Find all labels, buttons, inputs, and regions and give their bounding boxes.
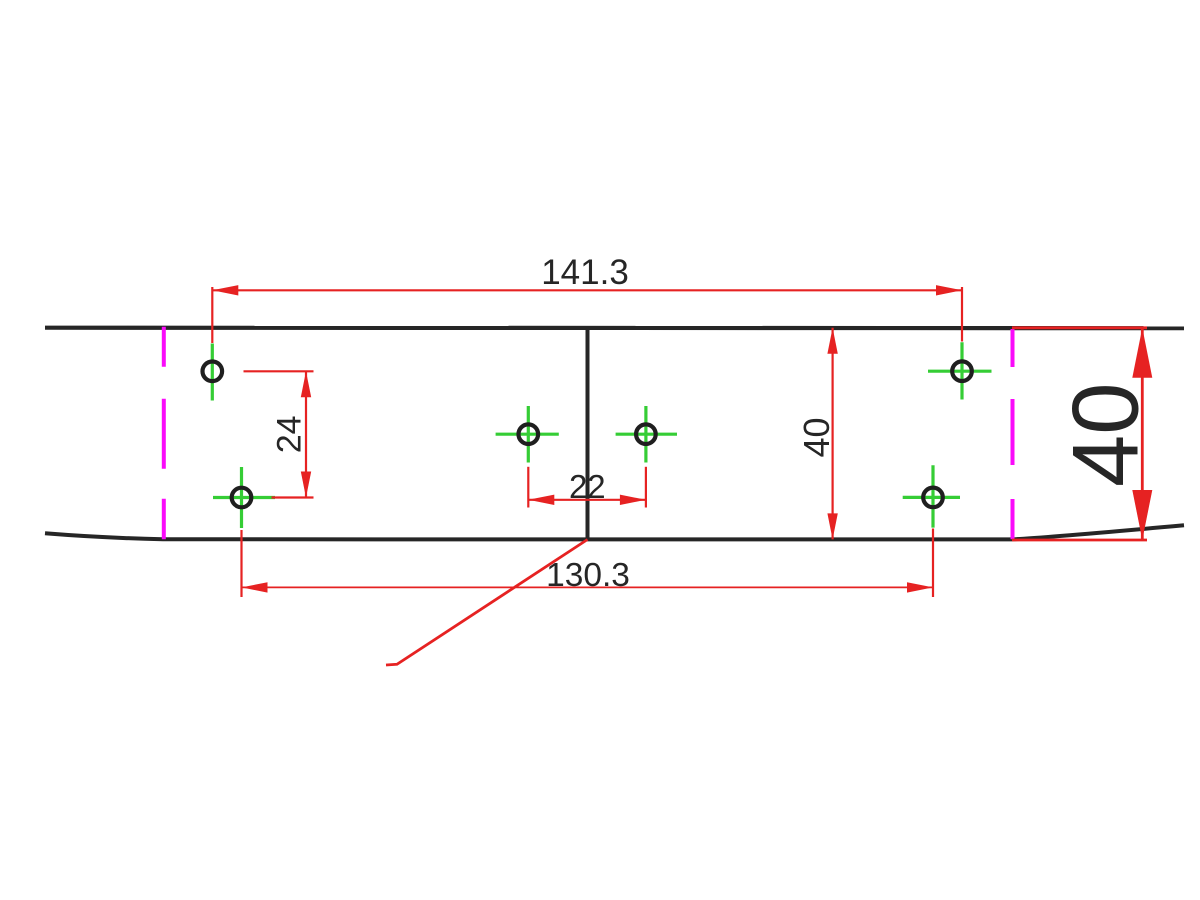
dimension 22 arrow right bbox=[620, 495, 646, 505]
dimension 24 extension stub bottom bbox=[272, 496, 314, 498]
dimension 130.3 extension line right bbox=[932, 529, 934, 598]
dimension 141.3 arrow right bbox=[936, 285, 962, 295]
leader line bbox=[386, 540, 588, 666]
hole H1 bbox=[203, 362, 223, 382]
hole H6 bbox=[923, 488, 943, 508]
hole H5 bbox=[952, 361, 972, 381]
dimension 22 extension line left bbox=[527, 467, 529, 508]
svg-text:40: 40 bbox=[1053, 382, 1158, 487]
dimension 40 line (middle) bbox=[831, 328, 833, 540]
hole H5 center mark (green) bbox=[928, 342, 992, 399]
svg-text:141.3: 141.3 bbox=[541, 253, 629, 292]
part bottom edge bbox=[45, 525, 1184, 539]
dimension 40 (right, large) extension bottom bbox=[1012, 539, 1147, 542]
dimension 24 arrow bottom bbox=[301, 472, 311, 498]
hole H6 center mark (green) bbox=[903, 465, 960, 527]
dimension 130.3 extension line left bbox=[240, 530, 242, 597]
hole H3 center mark (green) bbox=[496, 406, 559, 463]
dimension 22 extension line right bbox=[645, 467, 647, 508]
hole H1 center mark (green) bbox=[211, 344, 214, 401]
svg-text:130.3: 130.3 bbox=[546, 557, 630, 594]
dimension 24 arrow top bbox=[301, 371, 311, 397]
hole H4 bbox=[636, 424, 656, 444]
dimension 141.3 line bbox=[212, 289, 962, 291]
dimension 40 (right, large) arrow top bbox=[1132, 328, 1152, 378]
dimension 40 arrow top bbox=[827, 328, 837, 354]
break line right (magenta) bbox=[1011, 329, 1015, 539]
dimension 40 arrow bottom bbox=[827, 513, 837, 539]
break line left (magenta) bbox=[162, 327, 166, 539]
svg-text:24: 24 bbox=[271, 415, 309, 453]
dimension 40 (right, large) line bbox=[1141, 328, 1144, 540]
hole H2 bbox=[232, 488, 252, 508]
dimension 22 arrow left bbox=[528, 495, 554, 505]
dimension 24 extension stub top bbox=[244, 370, 314, 372]
dimension 130.3 arrow left bbox=[242, 582, 268, 592]
dimension 141.3 extension line right bbox=[961, 287, 963, 342]
svg-text:40: 40 bbox=[796, 417, 837, 457]
dimension 130.3 line bbox=[242, 586, 934, 588]
dimension 141.3 extension line left bbox=[211, 287, 213, 343]
hole H2 center mark (green) bbox=[213, 467, 275, 528]
hole H4 center mark (green) bbox=[616, 406, 677, 463]
hole H3 bbox=[519, 424, 539, 444]
dimension 40 (right, large) extension top bbox=[1012, 326, 1147, 329]
dimension 22 line bbox=[528, 499, 646, 501]
dimension 24 line bbox=[305, 371, 307, 497]
dimension 130.3 arrow right bbox=[907, 582, 933, 592]
part center joint line bbox=[586, 328, 590, 540]
part top edge bbox=[45, 326, 1184, 331]
dimension 40 (right, large) arrow bottom bbox=[1132, 490, 1152, 540]
svg-text:22: 22 bbox=[569, 468, 606, 505]
dimension 141.3 arrow left bbox=[212, 285, 238, 295]
